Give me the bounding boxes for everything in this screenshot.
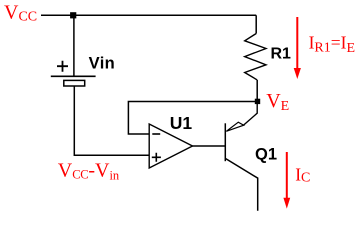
svg-text:VCC: VCC xyxy=(4,2,37,25)
resistor R1 zigzag xyxy=(245,34,266,80)
wire feedback from VE node to op-amp minus input xyxy=(128,102,255,135)
wire R1 top lead xyxy=(255,15,257,33)
node VE junction dot (square) xyxy=(255,99,260,104)
transistor Q1 emitter arrowhead (open, PNP) xyxy=(226,122,243,131)
svg-text:IC: IC xyxy=(295,164,310,185)
svg-text:Q1: Q1 xyxy=(255,146,277,164)
current arrow IC head xyxy=(283,198,290,209)
transistor Q1 emitter lead to VE xyxy=(244,103,258,125)
op-amp U1 minus input mark xyxy=(152,133,160,135)
svg-text:U1: U1 xyxy=(170,113,193,133)
svg-text:R1: R1 xyxy=(271,46,292,63)
svg-text:VE: VE xyxy=(266,90,289,114)
transistor Q1 base bar xyxy=(224,123,226,161)
junction dot (square) top rail xyxy=(70,12,76,18)
battery Vin plus sign xyxy=(57,61,68,72)
op-amp U1 triangle xyxy=(149,124,192,168)
battery Vin bottom plate xyxy=(64,80,85,86)
svg-text:IR1=IE: IR1=IE xyxy=(309,33,355,56)
battery Vin top plate xyxy=(51,75,96,77)
wire battery top lead xyxy=(73,15,75,75)
op-amp U1 plus input mark xyxy=(152,153,161,162)
wire R1 bottom lead xyxy=(256,80,258,100)
transistor Q1 collector lead xyxy=(226,159,258,211)
current arrow IC shaft xyxy=(286,152,288,198)
svg-text:Vin: Vin xyxy=(89,55,116,73)
wire op-amp output to Q1 base xyxy=(193,145,226,147)
wire battery bottom lead to op-amp plus input xyxy=(74,86,149,155)
svg-text:VCC-Vin: VCC-Vin xyxy=(58,160,120,183)
current arrow IR1 shaft xyxy=(296,17,298,69)
wire top rail VCC xyxy=(41,14,256,16)
current arrow IR1 head xyxy=(294,68,301,79)
